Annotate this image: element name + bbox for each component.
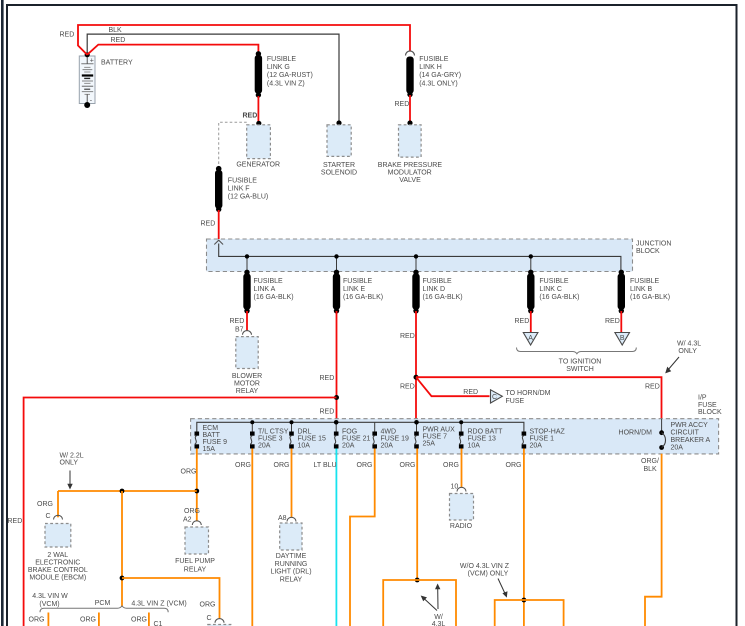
svg-text:BREAKER A: BREAKER A <box>671 437 711 444</box>
svg-text:FUSE: FUSE <box>698 402 717 409</box>
svg-text:ORG: ORG <box>80 617 96 624</box>
svg-text:FUSIBLE: FUSIBLE <box>254 278 284 285</box>
wire RED link C to connector A <box>515 311 531 332</box>
svg-text:ORG: ORG <box>200 602 216 609</box>
svg-text:I/P: I/P <box>698 395 707 402</box>
fuse FOG FUSE 21 20A <box>334 429 371 450</box>
label W/ 4.3L with arrows <box>421 584 446 626</box>
svg-text:SOLENOID: SOLENOID <box>321 169 357 176</box>
radio <box>450 494 474 531</box>
wire ORG T/L CTSY fuse down <box>235 449 252 626</box>
svg-text:RUNNING: RUNNING <box>275 561 308 568</box>
svg-text:(16 GA-BLK): (16 GA-BLK) <box>539 294 579 301</box>
wire RED branch to horn/dm circuit breaker <box>416 341 701 419</box>
svg-text:PCM: PCM <box>95 600 111 607</box>
svg-text:RED: RED <box>605 318 620 325</box>
label W/ 2.2L ONLY with arrow <box>60 453 84 490</box>
svg-text:ORG: ORG <box>235 462 251 469</box>
svg-text:SWITCH: SWITCH <box>566 366 594 373</box>
svg-text:RED: RED <box>515 318 530 325</box>
wire ORG PWR AUX fuse down to W/4.3L options <box>383 449 456 626</box>
svg-text:ORG: ORG <box>357 462 373 469</box>
fusible link E <box>333 270 383 314</box>
brake pressure modulator valve <box>378 120 443 184</box>
svg-text:FUSE: FUSE <box>506 398 525 405</box>
svg-text:BLK: BLK <box>644 466 658 473</box>
svg-text:ONLY: ONLY <box>678 348 697 355</box>
svg-text:LINK G: LINK G <box>267 64 290 71</box>
svg-text:ORG: ORG <box>37 501 53 508</box>
svg-text:(16 GA-BLK): (16 GA-BLK) <box>630 294 670 301</box>
fuse PWR AUX FUSE 7 25A <box>414 427 455 449</box>
wire ORG to PCM brace <box>120 491 125 607</box>
svg-text:FUSIBLE: FUSIBLE <box>539 278 569 285</box>
wire ORG RDO BATT fuse to radio <box>443 449 466 492</box>
svg-text:(12 GA-RUST): (12 GA-RUST) <box>267 72 313 79</box>
svg-text:B: B <box>620 335 625 342</box>
wire RED battery to fusible link G <box>87 37 258 55</box>
circuit breaker A (PWR ACCY) with HORN/DM terminal <box>619 419 711 452</box>
wire ORG to EBCM <box>37 491 63 520</box>
svg-text:HORN/DM: HORN/DM <box>619 430 653 437</box>
fusible link A <box>243 270 293 314</box>
starter solenoid <box>321 120 357 176</box>
svg-text:4.3L VIN Z (VCM): 4.3L VIN Z (VCM) <box>131 601 186 608</box>
wire ORG branch to connector C (bottom) <box>122 578 231 626</box>
svg-text:GENERATOR: GENERATOR <box>236 162 280 169</box>
fuse T/L CTSY FUSE 3 20A <box>250 429 289 450</box>
svg-text:FUSIBLE: FUSIBLE <box>343 278 373 285</box>
svg-text:BATTERY: BATTERY <box>101 60 133 67</box>
svg-text:FOG: FOG <box>342 429 357 436</box>
fuse ECM BATT FUSE 9 15A <box>195 425 228 453</box>
svg-text:FUSE 19: FUSE 19 <box>381 436 410 443</box>
svg-text:RED: RED <box>320 375 335 382</box>
wire ORG PCM option 3 <box>131 613 163 626</box>
svg-text:4.3L VIN W: 4.3L VIN W <box>32 593 68 600</box>
svg-text:15A: 15A <box>203 446 216 453</box>
svg-text:BRAKE PRESSURE: BRAKE PRESSURE <box>378 162 443 169</box>
svg-text:BLOCK: BLOCK <box>698 409 722 416</box>
svg-text:RDO BATT: RDO BATT <box>468 429 504 436</box>
svg-text:STARTER: STARTER <box>323 162 355 169</box>
fuel pump relay <box>175 521 215 574</box>
svg-text:(VCM) ONLY: (VCM) ONLY <box>468 571 509 578</box>
daytime running light (DRL) relay <box>270 523 311 584</box>
svg-text:W/ 4.3L: W/ 4.3L <box>677 341 701 348</box>
junction block <box>207 239 672 272</box>
svg-text:MODULATOR: MODULATOR <box>388 170 432 177</box>
svg-text:RED: RED <box>395 101 410 108</box>
svg-text:RELAY: RELAY <box>236 388 259 395</box>
wire RED link A to blower motor relay <box>230 311 252 335</box>
svg-text:C: C <box>492 394 497 401</box>
svg-text:(16 GA-BLK): (16 GA-BLK) <box>343 294 383 301</box>
svg-text:LINK A: LINK A <box>254 286 276 293</box>
fuse 4WD FUSE 19 20A <box>372 429 409 450</box>
wire ORG PCM option 2 <box>80 613 99 626</box>
svg-text:FUSE 3: FUSE 3 <box>258 436 283 443</box>
fusible link C <box>527 270 579 314</box>
svg-text:LINK B: LINK B <box>630 286 653 293</box>
svg-text:W/O 4.3L VIN Z: W/O 4.3L VIN Z <box>460 563 510 570</box>
svg-text:C: C <box>207 615 212 622</box>
svg-text:ORG/: ORG/ <box>641 458 659 465</box>
wire RED link H to brake pressure modulator valve <box>395 95 411 122</box>
svg-text:LINK E: LINK E <box>343 286 366 293</box>
svg-text:RED: RED <box>111 37 126 44</box>
svg-text:RED: RED <box>243 113 258 120</box>
svg-text:(4.3L VIN Z): (4.3L VIN Z) <box>267 80 305 87</box>
svg-text:RED: RED <box>8 518 23 525</box>
svg-text:RED: RED <box>645 384 660 391</box>
svg-text:TO HORN/DM: TO HORN/DM <box>506 390 551 397</box>
generator <box>219 121 280 169</box>
wire RED link B to connector B <box>605 311 621 332</box>
svg-text:MOTOR: MOTOR <box>234 381 260 388</box>
svg-text:BRAKE CONTROL: BRAKE CONTROL <box>28 567 88 574</box>
svg-text:(4.3L ONLY): (4.3L ONLY) <box>419 80 458 87</box>
svg-text:A2: A2 <box>183 517 192 524</box>
fuse DRL FUSE 15 10A <box>289 429 326 450</box>
svg-text:MODULE (EBCM): MODULE (EBCM) <box>29 575 86 582</box>
svg-text:FUSE 15: FUSE 15 <box>298 436 327 443</box>
svg-text:CIRCUIT: CIRCUIT <box>671 430 700 437</box>
battery <box>79 52 133 108</box>
svg-text:STOP-HAZ: STOP-HAZ <box>530 429 566 436</box>
4WAL electronic brake control module (EBCM) <box>28 524 88 582</box>
svg-text:FUSE 7: FUSE 7 <box>423 434 448 441</box>
svg-text:VALVE: VALVE <box>399 177 421 184</box>
fuse STOP-HAZ FUSE 1 20A <box>522 429 566 450</box>
blower motor relay <box>232 337 262 395</box>
svg-text:+: + <box>90 58 94 65</box>
svg-text:20A: 20A <box>381 443 394 450</box>
svg-text:ORG: ORG <box>443 462 459 469</box>
svg-text:LT BLU: LT BLU <box>314 462 337 469</box>
svg-text:FUSIBLE: FUSIBLE <box>267 56 297 63</box>
svg-text:RADIO: RADIO <box>450 523 473 530</box>
svg-text:(16 GA-BLK): (16 GA-BLK) <box>423 294 463 301</box>
svg-text:ORG: ORG <box>29 617 45 624</box>
svg-text:FUSIBLE: FUSIBLE <box>630 278 660 285</box>
svg-text:RELAY: RELAY <box>184 567 207 574</box>
svg-text:4WD: 4WD <box>381 429 397 436</box>
svg-text:T/L CTSY: T/L CTSY <box>258 429 289 436</box>
svg-text:FUSE 9: FUSE 9 <box>203 439 228 446</box>
brace to ignition switch <box>517 348 637 374</box>
svg-text:ORG: ORG <box>184 508 200 515</box>
svg-text:(VCM): (VCM) <box>39 601 59 608</box>
svg-text:FUSE 1: FUSE 1 <box>530 436 555 443</box>
svg-text:ORG: ORG <box>506 462 522 469</box>
fusible link H <box>406 51 462 97</box>
fusible link D <box>412 270 462 314</box>
wire RED battery to fusible link H <box>60 25 411 55</box>
page border frame (decorative) <box>1 0 4 626</box>
svg-text:FUSIBLE: FUSIBLE <box>423 278 453 285</box>
wire ORG ECM fuse to EBCM / fuel pump relay / PCM <box>58 449 200 524</box>
I/P fuse block <box>191 395 722 454</box>
fusible link B <box>618 270 670 314</box>
svg-text:RED: RED <box>400 384 415 391</box>
wire LT BLU FOG fuse down <box>314 449 337 626</box>
svg-text:ORG: ORG <box>274 462 290 469</box>
svg-text:DAYTIME: DAYTIME <box>276 553 307 560</box>
svg-text:RED: RED <box>201 221 216 228</box>
fusible link G <box>255 51 313 98</box>
fusible link F <box>215 166 268 212</box>
wire ORG PCM option 1 <box>29 613 49 626</box>
svg-text:C: C <box>46 513 51 520</box>
svg-text:W/: W/ <box>434 614 443 621</box>
svg-text:BLOCK: BLOCK <box>636 248 660 255</box>
wire RED branch to left edge <box>8 398 337 626</box>
svg-text:FUSE 13: FUSE 13 <box>468 436 497 443</box>
svg-text:RELAY: RELAY <box>280 577 303 584</box>
svg-text:RED: RED <box>230 318 245 325</box>
svg-text:20A: 20A <box>342 443 355 450</box>
svg-text:TO IGNITION: TO IGNITION <box>559 359 602 366</box>
label W/O 4.3L VIN Z (VCM) ONLY with arrow <box>460 563 510 598</box>
svg-text:10A: 10A <box>468 443 481 450</box>
svg-text:(14 GA-GRY): (14 GA-GRY) <box>419 72 461 79</box>
svg-text:20A: 20A <box>258 443 271 450</box>
wire RED link E to fuse block (FOG column) <box>320 311 340 422</box>
svg-text:4.3L: 4.3L <box>432 621 446 626</box>
svg-text:BATT: BATT <box>203 432 221 439</box>
svg-text:ECM: ECM <box>203 425 219 432</box>
svg-text:LINK F: LINK F <box>228 186 250 193</box>
wire BLK battery to starter solenoid <box>87 27 339 122</box>
svg-text:RED: RED <box>463 389 478 396</box>
PCM options brace <box>32 593 186 612</box>
svg-text:LINK D: LINK D <box>423 286 446 293</box>
svg-text:ORG: ORG <box>181 469 197 476</box>
svg-text:LIGHT (DRL): LIGHT (DRL) <box>270 569 311 576</box>
svg-text:ONLY: ONLY <box>60 460 79 467</box>
svg-text:(12 GA-BLU): (12 GA-BLU) <box>228 194 268 201</box>
wire ORG DRL fuse to DRL relay <box>274 449 297 523</box>
connector C to horn/dm fuse <box>416 377 551 405</box>
svg-text:RED: RED <box>320 409 335 416</box>
svg-text:DRL: DRL <box>298 429 312 436</box>
svg-text:FUSIBLE: FUSIBLE <box>228 177 258 184</box>
svg-text:RED: RED <box>60 32 75 39</box>
svg-text:(16 GA-BLK): (16 GA-BLK) <box>254 294 294 301</box>
wire ORG/BLK circuit breaker down (with jog) <box>641 454 662 626</box>
connector A (to ignition switch) <box>523 333 538 346</box>
svg-text:2 WAL: 2 WAL <box>47 552 68 559</box>
svg-text:20A: 20A <box>530 443 543 450</box>
svg-text:PWR AUX: PWR AUX <box>423 427 456 434</box>
svg-text:A8: A8 <box>278 515 287 522</box>
svg-text:C1: C1 <box>154 621 163 626</box>
svg-text:LINK C: LINK C <box>539 286 562 293</box>
svg-text:JUNCTION: JUNCTION <box>636 241 671 248</box>
wire ORG STOP-HAZ fuse down to options <box>495 449 564 626</box>
fuse RDO BATT FUSE 13 10A <box>459 429 503 450</box>
svg-text:10A: 10A <box>298 443 311 450</box>
svg-text:FUEL PUMP: FUEL PUMP <box>175 558 215 565</box>
svg-text:BLOWER: BLOWER <box>232 373 262 380</box>
wire RED link G to generator <box>243 96 259 122</box>
svg-text:FUSIBLE: FUSIBLE <box>419 56 449 63</box>
svg-text:20A: 20A <box>671 445 684 452</box>
svg-text:B7: B7 <box>235 327 244 334</box>
wire RED link F to junction block <box>201 210 219 239</box>
svg-text:BLK: BLK <box>109 27 123 34</box>
svg-text:RED: RED <box>400 333 415 340</box>
svg-text:PWR ACCY: PWR ACCY <box>671 422 709 429</box>
svg-text:W/ 2.2L: W/ 2.2L <box>60 453 84 460</box>
connector B (to ignition switch) <box>615 333 630 346</box>
svg-text:FUSE 21: FUSE 21 <box>342 436 371 443</box>
svg-text:ORG: ORG <box>400 462 416 469</box>
svg-text:ORG: ORG <box>131 617 147 624</box>
svg-text:ELECTRONIC: ELECTRONIC <box>35 560 80 567</box>
svg-text:A: A <box>528 335 533 342</box>
wire RED link D to fuse block (PWR AUX column) <box>400 311 419 422</box>
svg-text:LINK H: LINK H <box>419 64 442 71</box>
svg-text:25A: 25A <box>423 441 436 448</box>
wire ORG 4WD fuse down (with jog) <box>350 449 375 626</box>
